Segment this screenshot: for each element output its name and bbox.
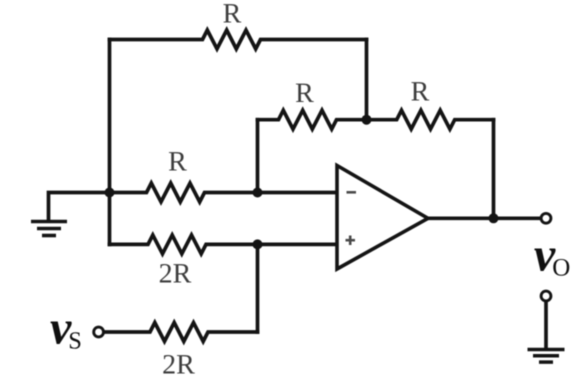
wire: vertical from non-inverting row down to source row — [256, 244, 260, 332]
svg-text:2R: 2R — [159, 258, 192, 289]
wire: left vertical rail — [108, 40, 112, 245]
junction: node a (inverting side junction) — [253, 188, 263, 198]
ground (right, under vO) — [528, 350, 565, 363]
wire: vertical from top row down to mid-row junction — [365, 40, 369, 120]
junction: node d (output junction) — [489, 213, 499, 223]
op-amp U1 — [337, 166, 428, 270]
resistor R3 (middle-right R) — [367, 110, 494, 129]
ground (left) — [31, 222, 67, 236]
svg-text:R: R — [295, 78, 314, 109]
svg-text:O: O — [552, 254, 570, 281]
wire: vO ground stub — [544, 302, 548, 348]
label vS (source) — [50, 302, 82, 355]
wire: op-amp output to terminal — [428, 216, 540, 220]
resistor R5 (2R to non-inverting input) — [110, 235, 338, 254]
svg-text:R: R — [411, 76, 430, 107]
resistor R1 (top feedback R) — [110, 30, 367, 49]
svg-text:R: R — [168, 146, 187, 177]
wire: vertical from mid-row left end down to inverting row — [256, 120, 260, 193]
label vO (output) — [534, 229, 570, 282]
junction: node c (mid feedback junction) — [362, 115, 372, 125]
svg-text:R: R — [223, 0, 242, 30]
resistor R6 (2R from source vS) — [105, 323, 258, 342]
resistor R2 (middle-left R) — [258, 110, 367, 129]
svg-text:2R: 2R — [162, 350, 195, 381]
terminal: vO reference — [541, 291, 551, 301]
resistor R4 (series R to inverting input) — [110, 183, 338, 202]
terminal: vS input — [94, 327, 104, 337]
junction: node b (non-inverting side junction) — [253, 239, 263, 249]
junction: node at left rail / ground — [105, 188, 115, 198]
svg-text:S: S — [68, 327, 82, 354]
terminal: vO output — [541, 213, 551, 223]
wire: vertical from mid-row right end down to output node — [492, 120, 496, 219]
op-amp non-inverting pin (+) — [346, 239, 356, 242]
wire: stub from left node to ground — [49, 193, 110, 221]
op-amp inverting pin (-) — [346, 192, 357, 245]
